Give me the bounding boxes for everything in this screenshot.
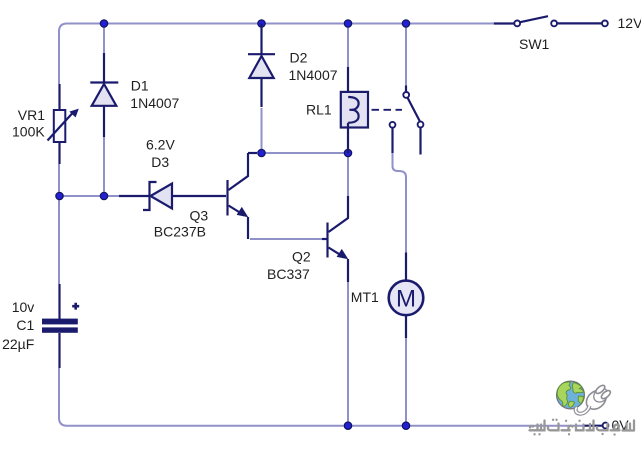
label 0V xyxy=(612,417,630,433)
node D1 anode y196 xyxy=(100,192,107,199)
wire bottom rail dark end xyxy=(584,425,602,427)
dashed actuator link xyxy=(372,109,403,111)
terminal 0V xyxy=(603,423,609,429)
svg-text:MT1: MT1 xyxy=(351,289,379,305)
wire top rail xyxy=(59,24,494,41)
wire bottom rail xyxy=(67,425,584,427)
resistor VR1 xyxy=(48,84,79,164)
transistor Q3 xyxy=(228,153,258,239)
svg-text:C1: C1 xyxy=(16,317,34,333)
svg-text:VR1: VR1 xyxy=(18,107,45,123)
label 100K xyxy=(12,124,45,140)
wire left rail mid xyxy=(58,164,60,284)
watermark arabic text xyxy=(530,420,635,435)
label MT1 xyxy=(351,289,379,305)
relay RL1 coil xyxy=(341,67,368,153)
label 10v xyxy=(12,299,35,315)
svg-text:100K: 100K xyxy=(12,124,45,140)
svg-text:D3: D3 xyxy=(151,154,169,170)
svg-text:22µF: 22µF xyxy=(2,336,34,352)
svg-text:BC337: BC337 xyxy=(267,266,310,282)
svg-text:RL1: RL1 xyxy=(306,102,332,118)
svg-text:D1: D1 xyxy=(131,78,149,94)
label 22uF xyxy=(2,336,34,352)
svg-text:BC237B: BC237B xyxy=(154,224,206,240)
svg-text:10v: 10v xyxy=(12,299,35,315)
wire D1 top xyxy=(103,24,105,54)
transistor Q2 xyxy=(322,196,348,282)
wire left rail lower xyxy=(59,368,67,426)
zener diode D3 xyxy=(119,182,226,210)
relay contact NO xyxy=(418,122,424,155)
watermark plug xyxy=(576,384,612,414)
svg-text:Q3: Q3 xyxy=(190,208,209,224)
node relay bottom y153 xyxy=(344,149,351,156)
wire horizontal base rail y196 xyxy=(59,195,119,197)
diode D1 xyxy=(90,53,118,137)
relay contact NC xyxy=(390,122,396,153)
label Q3 type xyxy=(154,224,206,240)
wire left rail upper xyxy=(58,32,60,85)
svg-text:1N4007: 1N4007 xyxy=(130,95,179,111)
svg-text:SW1: SW1 xyxy=(519,36,550,52)
diode D2 xyxy=(248,24,275,108)
watermark cord xyxy=(576,406,590,414)
label VR1 xyxy=(18,107,45,123)
node top rail relay xyxy=(344,20,351,27)
label SW1 xyxy=(519,36,550,52)
label Q3 xyxy=(190,208,209,224)
wire collector junction horizontal y153 xyxy=(262,152,349,154)
label D1 xyxy=(131,78,149,94)
capacitor C1 xyxy=(42,284,79,368)
wire Q2 emitter to bottom rail xyxy=(347,282,349,426)
svg-text:12V: 12V xyxy=(618,15,641,31)
label D1 value xyxy=(130,95,179,111)
wire motor bottom xyxy=(405,338,407,426)
label Q2 xyxy=(292,248,311,264)
wire D2 bottom xyxy=(261,108,263,153)
svg-text:M: M xyxy=(396,286,416,313)
wire relay bottom to Q2 collector xyxy=(347,153,349,197)
label 12V xyxy=(618,15,641,31)
wire relay top xyxy=(347,24,349,68)
wire D1 bottom xyxy=(103,137,105,196)
label 6.2V xyxy=(146,137,175,153)
label C1 xyxy=(16,317,34,333)
node left rail y196 xyxy=(56,192,63,199)
relay contact common xyxy=(403,86,409,98)
node top rail D1 xyxy=(100,20,107,27)
wire Q3 emitter to Q2 base xyxy=(250,238,322,240)
switch SW1 xyxy=(494,16,602,26)
label D2 value xyxy=(289,67,338,83)
watermark globe xyxy=(557,381,585,409)
terminal 12V xyxy=(602,21,608,27)
label D3 xyxy=(151,154,169,170)
wire contact common top xyxy=(405,24,407,86)
wire NC contact to motor jog xyxy=(393,153,407,253)
label D2 xyxy=(290,49,308,65)
relay contact arm xyxy=(407,97,420,121)
svg-text:D2: D2 xyxy=(290,49,308,65)
motor MT1 xyxy=(389,253,424,339)
node bottom rail motor xyxy=(402,422,409,429)
label Q2 type xyxy=(267,266,310,282)
svg-text:6.2V: 6.2V xyxy=(146,137,175,153)
node top rail D2 xyxy=(258,20,265,27)
node bottom rail Q2 xyxy=(344,422,351,429)
label RL1 xyxy=(306,102,332,118)
node collector junction y153 xyxy=(258,149,265,156)
svg-text:1N4007: 1N4007 xyxy=(289,67,338,83)
svg-text:Q2: Q2 xyxy=(292,248,311,264)
node top rail contact xyxy=(402,20,409,27)
